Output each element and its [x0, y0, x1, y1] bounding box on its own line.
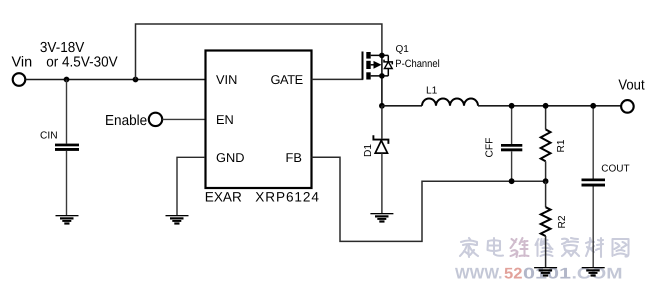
node CFF bottom — [509, 178, 515, 184]
Enable terminal — [149, 113, 162, 126]
resistor R2 — [541, 181, 551, 267]
svg-text:XRP6124: XRP6124 — [255, 189, 319, 204]
Vout terminal — [621, 100, 634, 113]
char 资 — [562, 238, 579, 256]
wire FB network — [312, 157, 546, 241]
inductor L1 — [422, 99, 478, 106]
char 维 — [511, 238, 529, 257]
node switch node — [379, 103, 385, 109]
svg-text:P-Channel: P-Channel — [395, 58, 439, 70]
svg-text:FB: FB — [286, 150, 302, 165]
svg-text:CIN: CIN — [40, 131, 58, 142]
ground (IC GND) — [166, 215, 189, 225]
svg-text:WWW.: WWW. — [455, 266, 503, 283]
ground (R2) — [534, 267, 557, 277]
ground (COUT) — [582, 267, 605, 277]
svg-text:Vin: Vin — [12, 55, 33, 71]
wire GATE to Q1 gate — [312, 52, 363, 80]
wire top loop to Q1 — [136, 24, 382, 80]
node CIN tap — [64, 77, 70, 83]
watermark URL WWW.520101.COM — [455, 266, 623, 283]
svg-text:R1: R1 — [556, 139, 567, 152]
svg-text:Q1: Q1 — [396, 44, 410, 55]
svg-text:3V-18V: 3V-18V — [40, 40, 85, 56]
capacitor CIN — [55, 80, 79, 216]
Vin terminal — [13, 73, 26, 86]
wire GND pin to ground — [177, 157, 205, 215]
node CFF top — [509, 103, 515, 109]
svg-text:D1: D1 — [363, 144, 374, 157]
svg-text:L1: L1 — [426, 86, 438, 97]
watermark chinese characters 家电维修资料网 — [460, 238, 629, 257]
svg-text:Enable: Enable — [105, 113, 147, 129]
node Q1 source — [379, 53, 385, 59]
wire Q1 drain vertical — [381, 55, 383, 105]
capacitor CFF — [501, 106, 522, 181]
char 家 — [460, 238, 478, 257]
wire Vin rail — [26, 79, 206, 81]
svg-text:GND: GND — [216, 150, 244, 165]
svg-text:EXAR: EXAR — [205, 189, 242, 204]
ground (CIN) — [56, 215, 79, 225]
capacitor COUT — [582, 106, 606, 267]
svg-text:GATE: GATE — [271, 72, 303, 87]
IC U1 EXAR XRP6124 — [206, 51, 312, 189]
svg-text:COUT: COUT — [601, 163, 629, 174]
node R1 top — [543, 103, 549, 109]
svg-text:Vout: Vout — [618, 77, 644, 93]
char 网 — [613, 239, 629, 257]
char 修 — [536, 239, 553, 256]
ground (D1) — [370, 213, 393, 223]
char 电 — [488, 238, 504, 256]
svg-text:or 4.5V-30V: or 4.5V-30V — [46, 55, 118, 71]
wire L1 to Vout — [478, 105, 621, 107]
svg-text:EN: EN — [216, 112, 234, 127]
transistor Q1 P-Channel MOSFET — [363, 52, 393, 80]
svg-text:52: 52 — [504, 266, 523, 283]
wire EN — [162, 118, 205, 120]
svg-text:R2: R2 — [557, 215, 568, 228]
char 料 — [586, 238, 603, 257]
node R1 bottom FB — [543, 178, 549, 184]
wire D1 branch — [381, 106, 383, 139]
node top-wire tap — [133, 77, 139, 83]
diode D1 schottky — [373, 135, 388, 213]
svg-text:CFF: CFF — [485, 138, 496, 158]
node Q1 drain — [379, 73, 385, 79]
resistor R1 — [541, 106, 551, 181]
node COUT top — [590, 103, 596, 109]
svg-text:VIN: VIN — [216, 72, 237, 87]
wire switch node to L1 — [382, 105, 422, 107]
